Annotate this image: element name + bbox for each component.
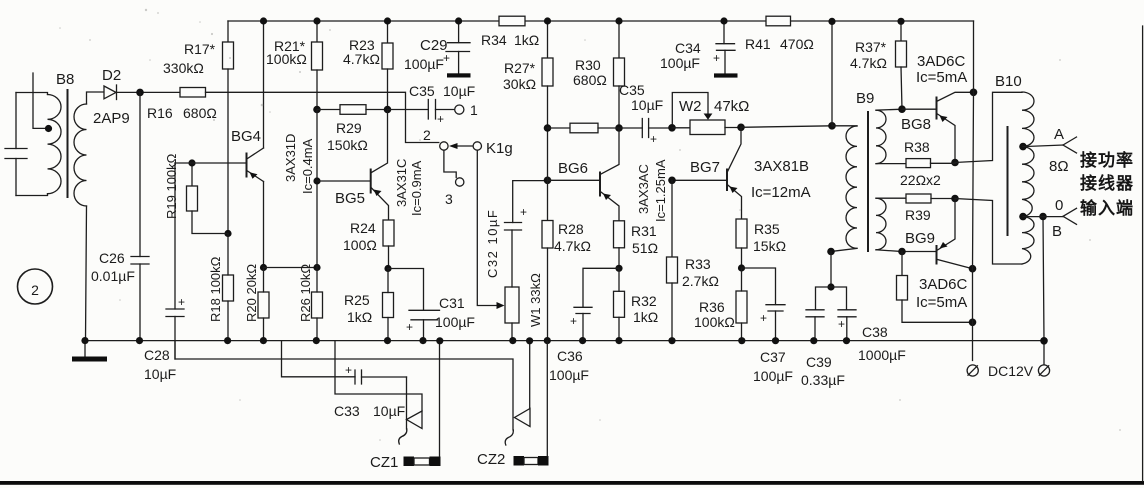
svg-text:BG9: BG9: [905, 230, 935, 247]
svg-text:C35: C35: [619, 82, 645, 98]
svg-text:100µF: 100µF: [404, 56, 444, 72]
ground symbol: [72, 341, 107, 362]
B10 tap 0: [1019, 197, 1076, 240]
svg-text:Ic=5mA: Ic=5mA: [916, 294, 967, 311]
svg-text:C31: C31: [439, 295, 465, 311]
svg-text:30kΩ: 30kΩ: [503, 76, 536, 92]
svg-text:R27*: R27*: [504, 60, 536, 76]
svg-text:100kΩ: 100kΩ: [694, 314, 735, 330]
svg-text:R33: R33: [685, 256, 711, 272]
svg-text:R34: R34: [481, 32, 507, 48]
node R24 bottom: [384, 265, 391, 272]
svg-text:CZ1: CZ1: [370, 454, 398, 471]
resistor R27: [503, 21, 553, 180]
svg-text:W2: W2: [679, 98, 702, 115]
capacitor C37: [742, 268, 793, 384]
node R21 rail: [313, 17, 320, 24]
svg-text:3AX31D: 3AX31D: [283, 134, 298, 182]
svg-text:R35: R35: [754, 221, 780, 237]
svg-text:8Ω: 8Ω: [1049, 158, 1069, 175]
capacitor C29: [404, 21, 471, 78]
svg-text:B8: B8: [56, 71, 74, 88]
svg-text:0: 0: [1055, 197, 1063, 214]
svg-text:BG4: BG4: [231, 128, 261, 145]
node R23 rail: [384, 17, 391, 24]
svg-text:330kΩ: 330kΩ: [163, 60, 204, 76]
resistor R40 (BG9 bias, unlabeled): [897, 252, 973, 323]
resistor R38: [904, 139, 955, 168]
svg-text:Ic=0.4mA: Ic=0.4mA: [300, 138, 315, 194]
node C38 ground: [843, 337, 850, 344]
capacitor C35 coupling to jack 1: [388, 83, 476, 126]
svg-text:BG7: BG7: [690, 159, 720, 176]
resistor R34 (in rail): [481, 16, 539, 48]
svg-text:47kΩ: 47kΩ: [714, 98, 749, 115]
svg-text:B10: B10: [995, 73, 1022, 90]
feedback resistor (BG6 stage): [548, 123, 620, 133]
resistor R21: [266, 21, 323, 110]
node ground left end: [81, 337, 88, 344]
svg-text:2AP9: 2AP9: [93, 110, 130, 127]
wire W2 row to B9 primary: [741, 126, 832, 128]
svg-text:2: 2: [31, 282, 39, 298]
node B9 primary bottom: [827, 248, 835, 256]
svg-text:R36: R36: [699, 299, 725, 315]
node R27 bottom / feedback row left: [544, 124, 552, 132]
node R30 bottom / BG6 collector: [615, 124, 623, 132]
wire B8 left winding bottom lead: [16, 194, 48, 196]
svg-text:R25: R25: [344, 292, 370, 308]
svg-text:C36: C36: [557, 348, 583, 364]
svg-text:470Ω: 470Ω: [780, 36, 814, 52]
svg-text:C32 10µF: C32 10µF: [485, 209, 500, 278]
resistor R37: [850, 21, 907, 109]
diode D2: [93, 67, 130, 127]
capacitor C28: [144, 163, 185, 382]
svg-text:R41: R41: [745, 36, 771, 52]
node B9 primary top feed: [828, 122, 836, 130]
node R36 ground: [738, 337, 745, 344]
svg-text:W1 33kΩ: W1 33kΩ: [528, 273, 543, 327]
transformer B9 primary: [831, 90, 874, 252]
svg-text:R26 10kΩ: R26 10kΩ: [298, 264, 313, 322]
node W2 left: [668, 124, 676, 132]
resistor R35: [736, 219, 786, 268]
svg-text:R30: R30: [575, 57, 601, 73]
node C34 rail: [720, 17, 727, 24]
wire terminal 2 to terminal 3: [444, 150, 456, 177]
svg-text:BG8: BG8: [901, 116, 931, 133]
capacitor C36: [549, 268, 619, 383]
svg-text:C26: C26: [99, 250, 125, 266]
node C31 ground: [419, 337, 426, 344]
node C26 ground: [136, 337, 143, 344]
wire C28 node down to CZ2 tip line: [175, 341, 513, 430]
svg-text:1kΩ: 1kΩ: [633, 309, 658, 325]
svg-text:3AX3AC: 3AX3AC: [636, 164, 651, 214]
resistor R26: [298, 264, 323, 341]
node R33 ground: [668, 337, 675, 344]
wire rail to B9 primary top node: [831, 21, 833, 125]
svg-text:4.7kΩ: 4.7kΩ: [850, 55, 887, 71]
resistor R16: [147, 88, 217, 122]
svg-text:B: B: [1052, 223, 1062, 240]
resistor R17: [163, 21, 234, 234]
capacitor C32: [485, 181, 548, 287]
svg-text:+: +: [520, 205, 527, 219]
transformer B9 secondary lower: [876, 198, 906, 251]
wire R16 row to K1g corner: [206, 92, 439, 142]
svg-text:+: +: [406, 320, 413, 334]
resistor R39: [905, 194, 955, 223]
wire ground to CZ1 contact: [335, 341, 422, 411]
transistor BG4: [231, 21, 315, 268]
node C36 ground: [579, 337, 586, 344]
node BG8 base: [898, 105, 906, 113]
node R27 rail: [544, 17, 551, 24]
wire ground to CZ2 contact: [529, 341, 531, 409]
svg-text:R16: R16: [147, 105, 173, 121]
node R26 top: [313, 264, 320, 271]
potentiometer W1: [497, 273, 544, 341]
B10 core: [1007, 126, 1009, 236]
wire BG4 emitter to R26 top: [264, 267, 318, 269]
svg-text:+: +: [760, 311, 767, 325]
node BG5 base: [313, 177, 320, 184]
svg-text:C39: C39: [806, 354, 832, 370]
DC12V terminal right: [1038, 365, 1049, 376]
svg-text:4.7kΩ: 4.7kΩ: [554, 238, 591, 254]
node filter caps top: [827, 283, 834, 290]
resistor R19: [164, 153, 228, 233]
node R23 bottom / R29 right / C35 left: [384, 106, 392, 114]
wire B8 right winding to D2: [87, 92, 105, 104]
svg-text:CZ2: CZ2: [477, 451, 505, 468]
svg-text:2.7kΩ: 2.7kΩ: [682, 273, 719, 289]
node W2 right / BG7 collector: [737, 124, 745, 132]
svg-text:R38: R38: [904, 139, 930, 155]
wire K1g to W1 wiper: [477, 150, 497, 305]
wire ground to CZ2 sleeve: [546, 341, 548, 456]
node R25 ground: [384, 337, 391, 344]
svg-text:3: 3: [445, 191, 453, 207]
node C37 ground: [772, 337, 779, 344]
node R17/R18/R19 junction: [224, 230, 231, 237]
svg-text:100µF: 100µF: [549, 367, 589, 383]
wire D2 cathode to node: [117, 91, 181, 93]
node CZ2 contact ground: [526, 337, 533, 344]
B8 antenna tap: [33, 73, 52, 132]
supply vertical (+12V): [973, 21, 974, 361]
svg-text:1kΩ: 1kΩ: [514, 32, 539, 48]
terminal 3: [445, 178, 464, 207]
capacitor C39: [801, 287, 845, 388]
node R26 ground: [313, 337, 320, 344]
svg-text:Ic=1.25mA: Ic=1.25mA: [653, 159, 668, 222]
svg-text:680Ω: 680Ω: [573, 72, 607, 88]
capacitor C33: [334, 363, 407, 419]
resistor R31: [614, 221, 659, 268]
node B10 centre tap riser: [1039, 213, 1047, 221]
node CZ1 sleeve ground: [436, 337, 443, 344]
resistor R24: [343, 220, 394, 269]
node BG8 collector to supply: [970, 89, 978, 97]
svg-text:10µF: 10µF: [631, 97, 663, 113]
resistor R28: [542, 180, 591, 340]
svg-text:15kΩ: 15kΩ: [753, 238, 786, 254]
node BG9 collector to supply: [969, 265, 977, 273]
svg-text:+: +: [178, 295, 185, 309]
svg-text:C28: C28: [144, 347, 170, 363]
node BG7 base: [668, 177, 676, 185]
bottom border frame line: [0, 481, 1144, 485]
svg-text:A: A: [1054, 126, 1064, 143]
svg-text:R29: R29: [336, 120, 362, 136]
capacitor tuning (B8 left branch): [5, 93, 27, 196]
node detector output: [136, 89, 144, 97]
svg-text:Ic=12mA: Ic=12mA: [751, 184, 811, 201]
resistor R29: [317, 105, 388, 153]
node R37 rail: [897, 18, 904, 25]
svg-text:R28: R28: [558, 221, 584, 237]
resistor R20: [244, 264, 269, 341]
transformer B9 secondary upper: [876, 109, 906, 163]
resistor R33: [667, 256, 719, 341]
transistor BG9: [902, 199, 973, 312]
svg-text:Ic=5mA: Ic=5mA: [916, 69, 967, 86]
right border frame line: [1142, 26, 1144, 481]
CZ1 jack body: [370, 454, 441, 471]
svg-text:R20 20kΩ: R20 20kΩ: [244, 264, 259, 322]
svg-text:100µF: 100µF: [435, 314, 475, 330]
svg-text:接功率: 接功率: [1080, 150, 1134, 170]
svg-text:B9: B9: [856, 90, 874, 107]
resistor R41 (in rail): [745, 16, 814, 52]
svg-text:K1g: K1g: [486, 140, 513, 157]
svg-text:Ic=0.9mA: Ic=0.9mA: [409, 160, 424, 216]
capacitor C26: [91, 250, 149, 341]
svg-text:680Ω: 680Ω: [183, 105, 217, 121]
node BG9 emitter: [951, 195, 959, 203]
transformer B10 winding: [995, 73, 1034, 264]
svg-text:0.33µF: 0.33µF: [801, 372, 845, 388]
svg-text:+: +: [437, 112, 444, 126]
svg-text:4.7kΩ: 4.7kΩ: [343, 51, 380, 67]
transistor BG8: [901, 53, 974, 163]
svg-text:10µF: 10µF: [373, 403, 405, 419]
node W1 ground: [509, 337, 516, 344]
svg-text:R39: R39: [905, 207, 931, 223]
svg-text:3AD6C: 3AD6C: [919, 276, 968, 293]
svg-text:接线器: 接线器: [1080, 173, 1134, 193]
resistor R36: [694, 268, 747, 341]
ground rail: [85, 340, 1044, 342]
svg-text:R32: R32: [631, 293, 657, 309]
B9 core: [867, 111, 869, 252]
svg-text:C37: C37: [760, 349, 786, 365]
wire B8 right winding bottom to ground: [86, 206, 87, 341]
svg-text:BG6: BG6: [558, 160, 588, 177]
wire R21 column down to BG5 base: [316, 110, 318, 268]
svg-text:C35: C35: [409, 83, 435, 99]
wire ground to CZ1 sleeve: [439, 341, 441, 457]
capacitor C34: [660, 21, 738, 78]
svg-text:+: +: [570, 314, 577, 328]
wire B8 left winding top lead: [16, 93, 48, 95]
node BG4 collector rail: [260, 17, 267, 24]
wire BG7 base column down to R33: [671, 180, 673, 257]
svg-text:51Ω: 51Ω: [632, 240, 658, 256]
node BG9 base: [898, 248, 906, 256]
svg-text:R37*: R37*: [855, 39, 887, 55]
svg-text:+: +: [713, 51, 720, 65]
CZ2 jack body: [477, 451, 549, 468]
transistor BG6: [548, 128, 669, 222]
svg-text:+: +: [838, 317, 845, 331]
node R31 bottom: [615, 265, 622, 272]
top supply rail: [228, 20, 974, 22]
switch K1g wiper arm: [449, 140, 513, 157]
label Chinese: connect power amplifier connector input: [1080, 150, 1134, 218]
transformer B8: [48, 71, 87, 206]
node C32 / BG6 base / R28 top: [544, 177, 552, 185]
resistor R18: [208, 234, 234, 341]
CZ2 contact triangle: [515, 409, 531, 427]
svg-text:D2: D2: [102, 67, 121, 84]
svg-text:C33: C33: [334, 403, 360, 419]
svg-text:R17*: R17*: [184, 41, 216, 57]
capacitor C35 coupling to W2: [619, 82, 672, 146]
node R35 bottom: [738, 264, 745, 271]
resistor R23: [343, 21, 393, 110]
transistor BG5: [317, 110, 424, 221]
wire ground to C33 row: [282, 341, 356, 377]
node R32 ground: [615, 337, 622, 344]
node BG4 emitter: [260, 264, 267, 271]
wire BG4 base row: [175, 162, 246, 164]
svg-text:+: +: [650, 132, 657, 146]
wire ground rail end to right terminal and B10 centre tap: [1043, 217, 1044, 365]
svg-text:100Ω: 100Ω: [343, 237, 377, 253]
svg-text:DC12V: DC12V: [988, 363, 1034, 379]
wire B9 primary bottom to filter caps: [830, 252, 832, 288]
svg-text:1: 1: [470, 102, 478, 118]
circled figure number 2: [18, 269, 53, 304]
B10 tap A: [1019, 126, 1076, 175]
svg-text:22Ωx2: 22Ωx2: [900, 172, 941, 188]
switch K1g terminal 2: [423, 127, 448, 150]
node ground rail right end: [1040, 337, 1048, 345]
svg-text:C29: C29: [420, 37, 448, 54]
svg-text:1000µF: 1000µF: [858, 347, 906, 363]
svg-text:100µF: 100µF: [753, 368, 793, 384]
svg-text:R18 100kΩ: R18 100kΩ: [208, 256, 223, 322]
terminal 1: [455, 102, 478, 118]
resistor R30: [573, 21, 625, 128]
resistor R25: [344, 269, 394, 341]
node R20 ground: [260, 337, 267, 344]
node C29 rail: [455, 17, 462, 24]
svg-text:BG5: BG5: [335, 190, 365, 207]
CZ2 tip hook: [505, 430, 513, 445]
node BG8 emitter: [951, 159, 959, 167]
CZ1 tip line and hook: [406, 377, 408, 429]
wire BG8 emitter row to B10 top: [955, 92, 1022, 162]
svg-text:3AX31C: 3AX31C: [394, 159, 409, 207]
svg-text:3AD6C: 3AD6C: [917, 53, 966, 70]
transistor BG7: [672, 127, 811, 219]
capacitor C31: [388, 269, 475, 341]
svg-text:C38: C38: [862, 324, 888, 340]
wire BG9 emitter row to B10 bottom: [955, 199, 1022, 265]
svg-text:10µF: 10µF: [443, 83, 475, 99]
node R19 top / BG4 base row: [188, 159, 195, 166]
node rail B9 feed: [828, 18, 835, 25]
svg-text:0.01µF: 0.01µF: [91, 268, 135, 284]
CZ1 contact triangle: [407, 411, 423, 429]
svg-text:+: +: [345, 363, 352, 377]
svg-text:1kΩ: 1kΩ: [347, 309, 372, 325]
capacitor C38: [831, 287, 906, 363]
svg-text:10µF: 10µF: [144, 366, 176, 382]
svg-text:150kΩ: 150kΩ: [327, 137, 368, 153]
node R28 ground: [544, 337, 551, 344]
svg-text:100kΩ: 100kΩ: [266, 51, 307, 67]
svg-text:C34: C34: [675, 40, 701, 56]
node R21 bottom / R29 left: [313, 106, 321, 114]
svg-text:100µF: 100µF: [660, 55, 700, 71]
svg-text:3AX81B: 3AX81B: [754, 158, 809, 175]
svg-text:R24: R24: [350, 220, 376, 236]
potentiometer W2: [672, 93, 749, 135]
node R18 ground: [224, 337, 231, 344]
svg-text:输入端: 输入端: [1080, 198, 1134, 218]
node C39 ground: [810, 337, 817, 344]
resistor R32: [614, 268, 659, 340]
node bias row to supply: [969, 319, 977, 327]
svg-text:R31: R31: [631, 223, 657, 239]
wire detector node down to C26: [139, 92, 141, 256]
svg-text:2: 2: [423, 127, 431, 143]
node R30 rail: [615, 17, 622, 24]
DC12V terminal left: [967, 365, 978, 376]
